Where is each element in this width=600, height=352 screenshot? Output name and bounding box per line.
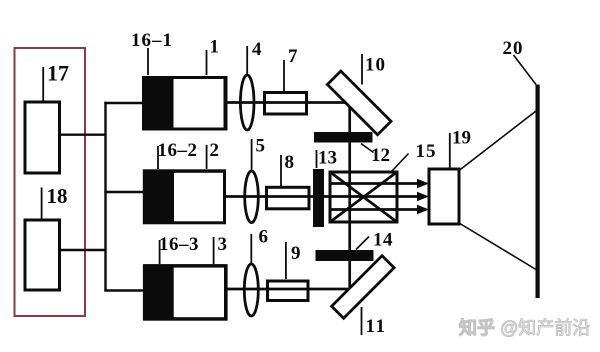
projection edge lower [459, 223, 536, 270]
lens 4 [240, 75, 254, 130]
svg-text:4: 4 [252, 39, 262, 60]
beam row 1 (laser 1 to mirror 10) [225, 101, 351, 104]
beam prism top output [331, 182, 420, 185]
mirror 11 [332, 256, 395, 319]
black aperture bar 12 [314, 132, 373, 143]
projection edge upper [459, 111, 536, 171]
svg-text:2: 2 [210, 140, 220, 161]
screen 20 [536, 85, 540, 299]
svg-text:5: 5 [256, 136, 266, 157]
red boundary frame [15, 48, 86, 316]
svg-text:20: 20 [503, 38, 524, 59]
laser 16-1/1 body [142, 76, 228, 131]
mirror 10 [327, 71, 391, 135]
beam row 3 (laser 3 to mirror 11) [226, 288, 351, 291]
svg-text:14: 14 [373, 230, 393, 251]
svg-text:6: 6 [259, 227, 269, 248]
svg-text:3: 3 [218, 234, 228, 255]
beam vertical (mirror 10 down through prism to mirror 11) [348, 103, 351, 290]
svg-text:16–1: 16–1 [131, 30, 173, 51]
watermark [459, 314, 590, 340]
arrowhead bottom beam [417, 205, 429, 215]
lens 5 [245, 171, 259, 223]
wire: vertical bus [104, 102, 106, 291]
X-prism diagonal 2 [330, 172, 397, 222]
wire: controller 18 to bus [60, 249, 107, 251]
svg-text:18: 18 [47, 184, 68, 208]
svg-text:12: 12 [371, 145, 390, 166]
laser 16-2/2 body [143, 169, 226, 224]
arrowhead middle beam [417, 192, 429, 202]
svg-text:10: 10 [365, 55, 386, 76]
modulator box 8 [267, 187, 310, 209]
lens 6 [244, 264, 258, 316]
wire: bus branch to laser 2 [106, 191, 145, 193]
beam row 2 (laser 2 through prism to arrows) [225, 195, 420, 198]
svg-text:16–3: 16–3 [159, 234, 199, 255]
arrowhead top beam [417, 179, 429, 189]
svg-text:7: 7 [288, 46, 298, 67]
X-prism diagonal 1 [330, 172, 397, 222]
svg-text:17: 17 [47, 61, 69, 86]
svg-text:16–2: 16–2 [158, 140, 198, 161]
black aperture bar 14 [316, 250, 374, 261]
svg-text:1: 1 [210, 37, 220, 58]
svg-text:15: 15 [416, 141, 437, 162]
wire: controller 17 to bus [60, 133, 107, 135]
projector box 19 [429, 169, 459, 224]
wire: bus branch to laser 3 [104, 289, 144, 291]
box 18 [25, 220, 60, 290]
svg-text:13: 13 [318, 148, 337, 169]
svg-text:8: 8 [285, 152, 295, 173]
box 17 [25, 102, 60, 173]
black aperture bar 13 [313, 169, 324, 227]
modulator box 7 [265, 93, 307, 115]
laser 16-3/3 body [143, 264, 228, 321]
svg-text:11: 11 [366, 316, 387, 337]
svg-text:9: 9 [291, 243, 301, 264]
X-prism 15 body [330, 172, 397, 222]
wire: bus branch to laser 1 [104, 102, 143, 104]
modulator box 9 [268, 281, 309, 301]
beam prism bottom output [331, 208, 420, 211]
svg-text:19: 19 [452, 128, 471, 149]
